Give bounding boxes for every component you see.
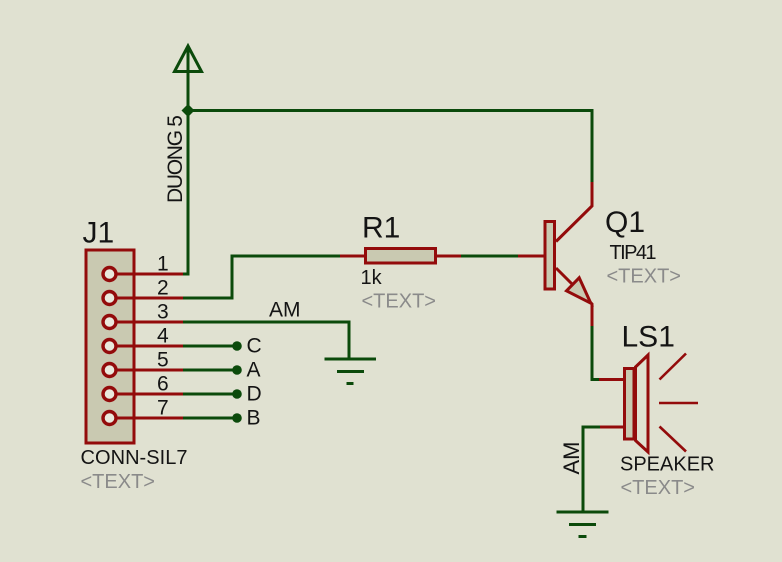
svg-text:AM: AM (269, 298, 301, 321)
svg-text:D: D (247, 382, 262, 405)
svg-text:2: 2 (157, 277, 169, 300)
LS1 pin stubs (599, 378, 623, 381)
svg-text:SPEAKER: SPEAKER (620, 454, 714, 476)
J1 connector body (86, 250, 134, 443)
wire: pin6 to terminal D (183, 393, 236, 396)
svg-text:1: 1 (157, 253, 169, 276)
resistor R1 body (366, 249, 436, 264)
wire: pin2 to R1 (183, 256, 341, 298)
terminal dot C (232, 341, 242, 351)
ground symbol (near J1) (325, 359, 377, 384)
wire: R1 to Q1 base (461, 255, 518, 258)
Q1 base pin (518, 255, 544, 258)
terminal dot D (232, 389, 242, 399)
LS1 cone (636, 355, 649, 452)
terminal dot B (232, 413, 242, 423)
svg-text:<TEXT>: <TEXT> (362, 291, 436, 313)
wire: pin1 to power rail (183, 273, 190, 276)
J1 pin circles (103, 268, 116, 425)
wire: top horizontal rail (188, 109, 592, 112)
J1 pin numbers (157, 253, 169, 420)
LS1 sound waves (659, 354, 698, 452)
svg-text:J1: J1 (83, 217, 115, 250)
svg-text:5: 5 (157, 349, 169, 372)
Q1 collector (556, 182, 592, 242)
Q1 emitter (556, 268, 592, 328)
wire: collector drop (591, 109, 594, 183)
J1 pin stubs (116, 274, 184, 418)
svg-text:3: 3 (157, 301, 169, 324)
wire: speaker bottom to ground (583, 427, 600, 512)
ground symbol (bottom) (557, 512, 609, 537)
wire: pin7 to terminal B (183, 417, 236, 420)
svg-text:1k: 1k (361, 267, 383, 289)
wire: pin3 to ground (183, 322, 349, 360)
junction dot (182, 104, 195, 117)
svg-text:7: 7 (157, 397, 169, 420)
resistor R1 pin stubs (340, 255, 461, 258)
svg-text:B: B (247, 406, 261, 429)
svg-text:<TEXT>: <TEXT> (607, 265, 681, 287)
Q1 base bar (545, 222, 555, 290)
wire: pin5 to terminal A (183, 369, 236, 372)
svg-text:4: 4 (157, 325, 169, 348)
wire: pin4 to terminal C (183, 345, 236, 348)
svg-text:DUONG 5: DUONG 5 (164, 115, 187, 203)
speaker LS1 (599, 354, 698, 453)
svg-text:R1: R1 (362, 211, 400, 244)
svg-text:<TEXT>: <TEXT> (621, 477, 695, 499)
terminal dot A (232, 365, 242, 375)
svg-text:LS1: LS1 (622, 321, 675, 354)
svg-text:CONN-SIL7: CONN-SIL7 (81, 447, 188, 469)
svg-text:C: C (247, 334, 262, 357)
transistor Q1 (518, 182, 592, 328)
LS1 driver rect (625, 369, 635, 440)
wire: power rail vertical (187, 47, 190, 274)
power symbol (arrow up) (175, 46, 202, 72)
wire: emitter to speaker (592, 326, 600, 380)
svg-text:Q1: Q1 (605, 206, 645, 239)
Q1 emitter arrow (567, 278, 591, 303)
svg-text:6: 6 (157, 373, 169, 396)
svg-text:A: A (247, 358, 261, 381)
svg-text:<TEXT>: <TEXT> (81, 471, 155, 493)
svg-text:TIP41: TIP41 (610, 242, 657, 264)
svg-text:AM: AM (559, 442, 584, 475)
